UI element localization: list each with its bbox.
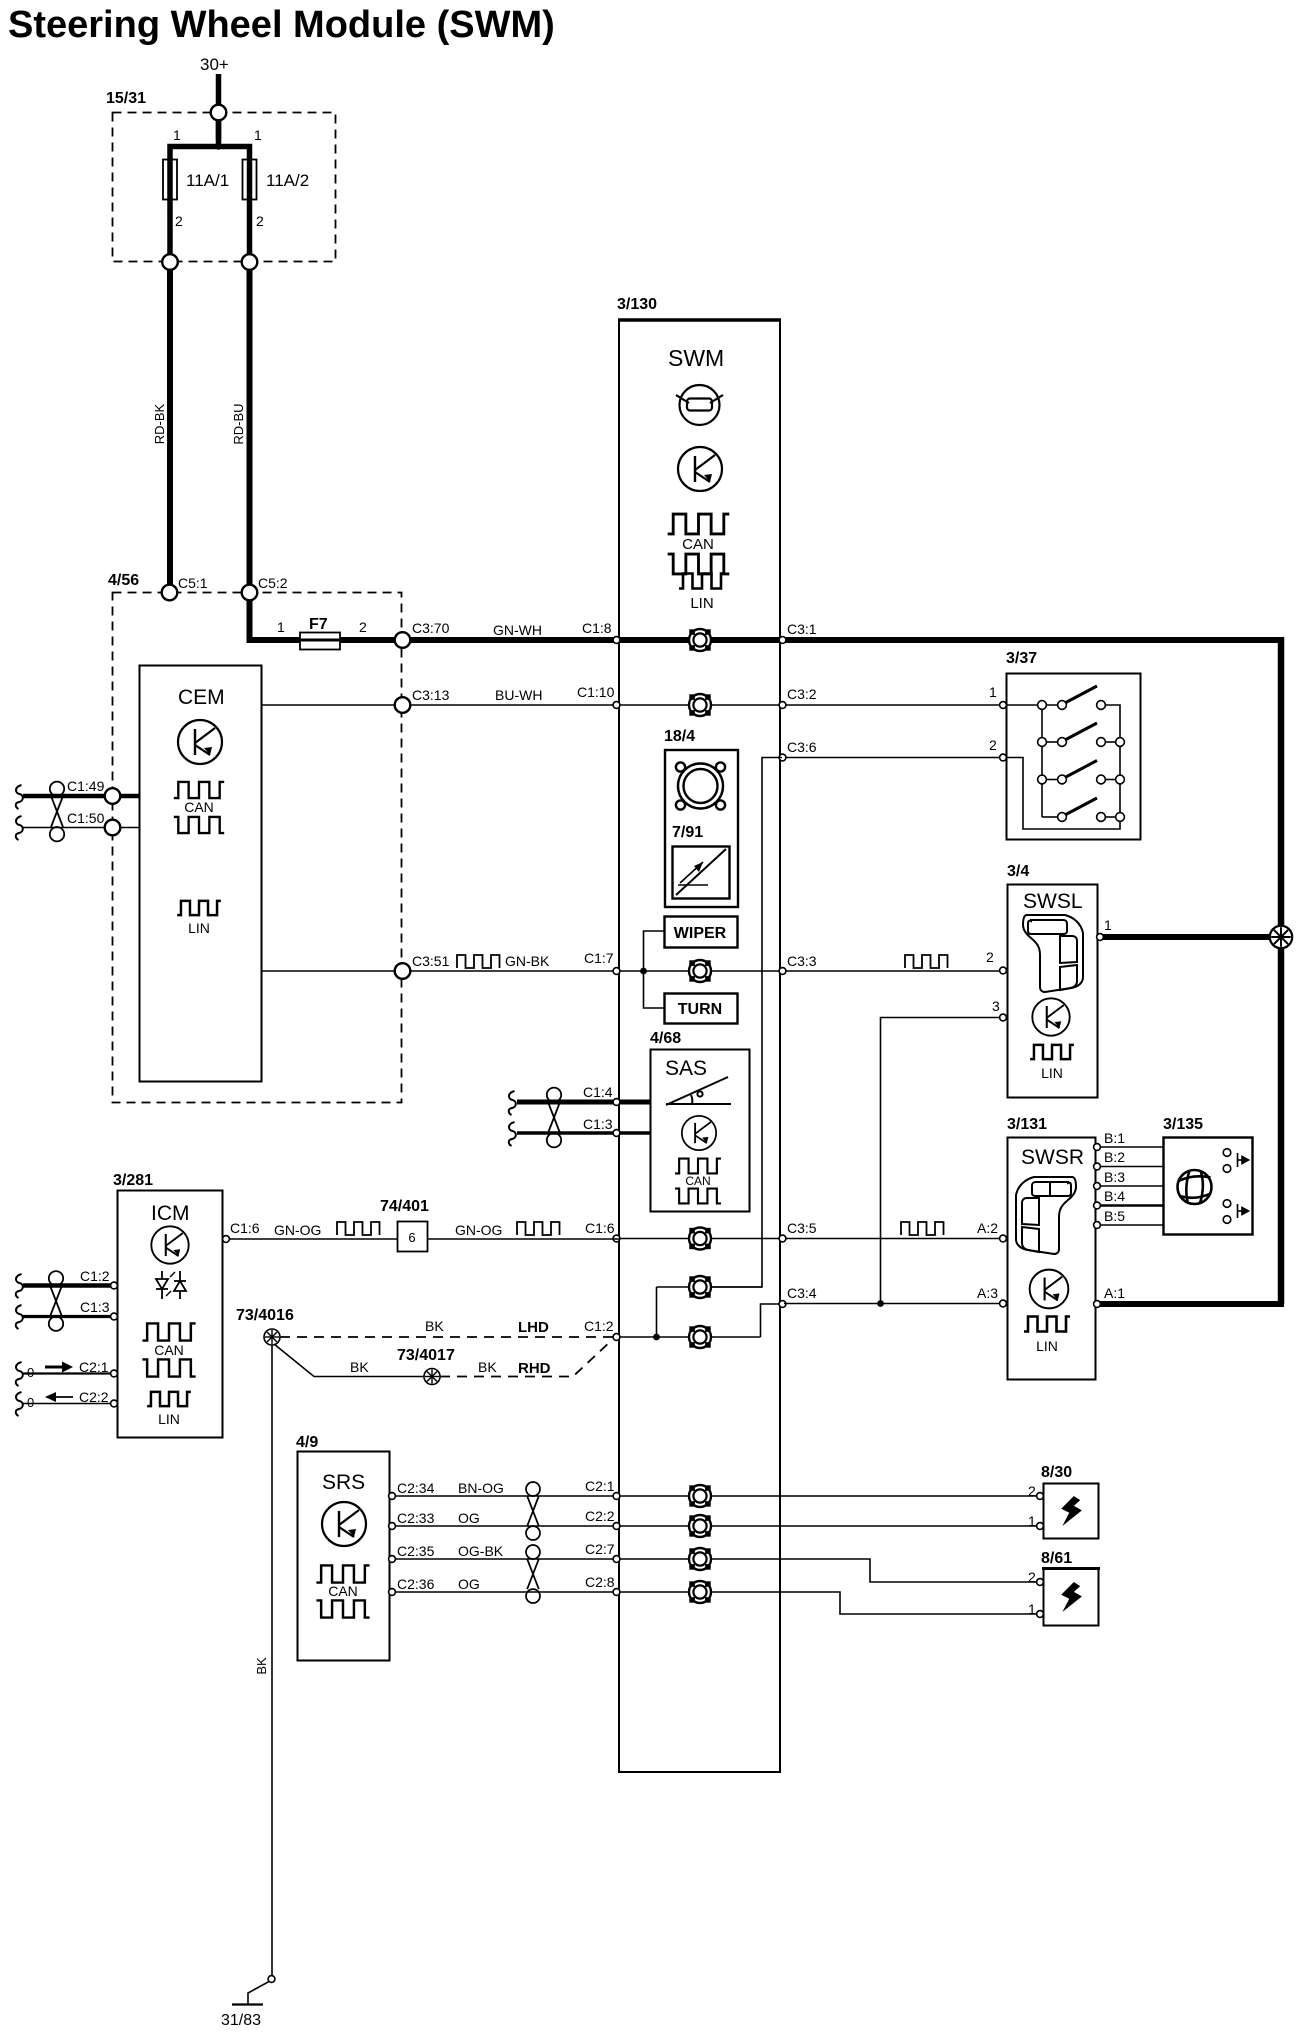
splice node on heavy net: [1270, 926, 1292, 948]
pin C3:3: [779, 968, 786, 975]
svg-text:73/4017: 73/4017: [397, 1347, 455, 1364]
svg-text:C5:1: C5:1: [178, 575, 208, 591]
svg-text:C3:4: C3:4: [787, 1285, 817, 1301]
pin A:3 of SWSR: [1000, 1300, 1007, 1307]
SWSR clock icon: [1030, 1270, 1069, 1309]
svg-text:C1:2: C1:2: [584, 1318, 614, 1334]
svg-text:1: 1: [254, 127, 262, 143]
wire 30+ feed vertical: [216, 74, 222, 140]
svg-text:C1:3: C1:3: [80, 1299, 110, 1315]
CEM CAN symbol: [174, 782, 224, 798]
svg-text:C1:6: C1:6: [585, 1220, 615, 1236]
svg-text:C5:2: C5:2: [258, 575, 288, 591]
junction on C1:2 row: [653, 1334, 660, 1341]
svg-text:BK: BK: [254, 1657, 269, 1675]
svg-text:CAN: CAN: [682, 536, 714, 553]
junction on C1:7 row: [640, 968, 647, 975]
wire 30+ into fuse bar: [216, 120, 222, 149]
twisted pair symbol SAS wires: [547, 1088, 561, 1148]
twisted pair symbol ICM CAN wires: [49, 1271, 63, 1331]
wire ICM C1:6 GN-OG row to SWM: [226, 1238, 619, 1240]
svg-text:ICM: ICM: [151, 1202, 190, 1225]
svg-text:LIN: LIN: [1041, 1065, 1063, 1081]
ICM suppressor diodes icon: [156, 1271, 186, 1299]
wire ICM C2:2 with in-arrow: [16, 1392, 23, 1416]
svg-text:C2:7: C2:7: [585, 1541, 615, 1557]
svg-text:1: 1: [1028, 1601, 1036, 1617]
svg-text:C1:49: C1:49: [67, 778, 105, 794]
svg-text:6: 6: [408, 1230, 415, 1245]
pin C1:8: [613, 637, 620, 644]
wire ICM C2:1 with out-arrow: [16, 1362, 23, 1386]
wire C1:3 into SAS: [509, 1122, 516, 1146]
SWM LIN symbol: [679, 574, 725, 589]
connector symbol on BU-WH wire: [689, 694, 711, 716]
svg-text:GN-WH: GN-WH: [493, 622, 542, 638]
wire branch down to C1:2 row: [656, 1287, 658, 1337]
svg-text:C2:8: C2:8: [585, 1574, 615, 1590]
svg-text:B:4: B:4: [1104, 1188, 1125, 1204]
heavy net vertical right side: [1278, 637, 1285, 1304]
pin A:2 of SWSR: [1000, 1235, 1007, 1242]
ICM clock icon: [151, 1226, 188, 1263]
dimmer icon: [676, 849, 726, 895]
wire C1:2 row inside SWM: [619, 1336, 761, 1338]
svg-text:A:3: A:3: [977, 1285, 998, 1301]
connector node on 15/31 top edge: [211, 105, 227, 121]
switch arms: [1063, 686, 1097, 704]
svg-text:2: 2: [256, 213, 264, 229]
svg-text:LIN: LIN: [158, 1411, 180, 1427]
svg-text:SWSR: SWSR: [1021, 1146, 1084, 1169]
CEM LIN symbol: [177, 901, 221, 915]
svg-text:C2:36: C2:36: [397, 1576, 435, 1592]
wire CEM C3:13 BU-WH to SWM C1:10: [261, 704, 618, 706]
svg-text:BU-WH: BU-WH: [495, 687, 542, 703]
ground connector node: [268, 1976, 275, 1983]
pins B:1..B:5 of SWSR with wires to 3/135: [1098, 1146, 1164, 1148]
svg-text:CAN: CAN: [685, 1174, 710, 1188]
SWSL clock icon: [1032, 998, 1069, 1035]
pin C3:2: [779, 702, 786, 709]
knot icon: [1178, 1170, 1212, 1204]
wire C1:6 row inside SWM to A:2: [619, 1238, 1000, 1240]
SWSL LIN symbol: [1030, 1045, 1074, 1059]
svg-text:4/56: 4/56: [108, 572, 139, 589]
svg-text:11A/2: 11A/2: [266, 171, 309, 190]
svg-text:RHD: RHD: [518, 1360, 551, 1377]
svg-text:2: 2: [989, 737, 997, 753]
SRS CAN symbol: [316, 1565, 369, 1582]
svg-text:3/131: 3/131: [1007, 1116, 1047, 1133]
svg-text:15/31: 15/31: [106, 90, 146, 107]
fuse 11A/1: [163, 160, 177, 200]
wire GN-WH F7 to SWM C1:8: [340, 637, 618, 643]
svg-text:LIN: LIN: [690, 595, 713, 612]
horn icon: [676, 762, 725, 809]
svg-text:LIN: LIN: [188, 920, 210, 936]
wire BK RHD (dashed diagonal): [440, 1340, 612, 1377]
svg-text:4/9: 4/9: [296, 1434, 318, 1451]
svg-text:SWM: SWM: [668, 345, 724, 371]
svg-text:CAN: CAN: [154, 1342, 184, 1358]
SWSL stalk icon: [1023, 915, 1083, 992]
svg-text:C3:70: C3:70: [412, 620, 450, 636]
wire C1:4 (thick) into SAS: [509, 1091, 516, 1115]
svg-text:1: 1: [173, 127, 181, 143]
wire WIPER/TURN branch: [644, 931, 665, 1008]
svg-text:RD-BU: RD-BU: [231, 403, 246, 444]
svg-text:C1:10: C1:10: [577, 684, 615, 700]
pin C1:3: [613, 1130, 620, 1137]
svg-text:2: 2: [986, 949, 994, 965]
pin C1:10: [613, 702, 620, 709]
SAS CAN symbol: [675, 1159, 721, 1174]
svg-text:A:2: A:2: [977, 1220, 998, 1236]
wire to ground point: [248, 1982, 269, 2005]
connector symbol on C1:6 row: [689, 1228, 711, 1250]
junction A:3/SWSL3: [877, 1300, 884, 1307]
wire CEM C3:51 GN-BK to SWM C1:7: [261, 970, 618, 972]
svg-text:C2:2: C2:2: [79, 1389, 109, 1405]
svg-text:8/61: 8/61: [1041, 1550, 1072, 1567]
wire BU-WH inside SWM to 3/37 pin 1: [619, 704, 1000, 706]
3/37 internal ladder: [1006, 705, 1120, 829]
svg-text:30+: 30+: [200, 55, 229, 74]
wires inside SWM to squibs: [619, 1495, 1037, 1497]
svg-text:C1:2: C1:2: [80, 1268, 110, 1284]
svg-text:BN-OG: BN-OG: [458, 1480, 504, 1496]
svg-text:18/4: 18/4: [664, 728, 695, 745]
svg-text:74/401: 74/401: [380, 1198, 429, 1215]
svg-text:1: 1: [1104, 917, 1112, 933]
svg-text:C2:34: C2:34: [397, 1480, 435, 1496]
wave on C3:3 row: [905, 955, 948, 968]
svg-text:BK: BK: [425, 1318, 444, 1334]
svg-text:8/30: 8/30: [1041, 1464, 1072, 1481]
svg-text:SRS: SRS: [322, 1471, 365, 1494]
wire ICM C1:2 (thick): [16, 1274, 23, 1298]
WIPER block: [665, 917, 738, 948]
keypad connector arrows: [1223, 1149, 1248, 1224]
twisted pair symbol rows 3-4: [526, 1545, 540, 1603]
pin C1:7: [613, 968, 620, 975]
internal row to C3:6 branch connector: [657, 1286, 763, 1288]
ICM CAN symbol: [142, 1323, 195, 1340]
svg-text:LIN: LIN: [1036, 1338, 1058, 1354]
twisted pair symbol rows 1-2: [526, 1482, 540, 1540]
SRS clock icon: [322, 1502, 366, 1546]
svg-text:SWSL: SWSL: [1023, 890, 1083, 913]
svg-text:2: 2: [1028, 1569, 1036, 1585]
svg-text:3: 3: [992, 998, 1000, 1014]
svg-text:2: 2: [175, 213, 183, 229]
wire BK to 73/4017 (solid): [274, 1344, 424, 1377]
svg-text:3/281: 3/281: [113, 1172, 153, 1189]
connector symbol on C1:7 row: [689, 960, 711, 982]
connector C1:50 on 4/56 edge: [105, 820, 121, 836]
connector C5:2: [242, 585, 258, 601]
svg-text:C2:1: C2:1: [585, 1478, 615, 1494]
wire GN-WH inside SWM / to right corner: [619, 637, 1284, 643]
svg-text:CAN: CAN: [184, 799, 214, 815]
svg-text:1: 1: [277, 619, 285, 635]
pin C3:1: [779, 637, 786, 644]
svg-text:3/37: 3/37: [1006, 650, 1037, 667]
pins C2:1/C2:2/C2:7/C2:8 on SWM edge: [613, 1493, 620, 1500]
wire C3:6 internal branch down: [712, 758, 782, 1288]
pin C3:5: [779, 1235, 786, 1242]
wire ICM C1:3: [16, 1305, 23, 1329]
svg-text:GN-OG: GN-OG: [455, 1222, 502, 1238]
svg-text:C2:2: C2:2: [585, 1508, 615, 1524]
svg-text:B:2: B:2: [1104, 1149, 1125, 1165]
svg-text:2: 2: [1028, 1483, 1036, 1499]
svg-text:LHD: LHD: [518, 1319, 549, 1336]
wire C2:33 OG row: [391, 1525, 619, 1527]
pin C1:2: [613, 1334, 620, 1341]
wire SWSL pin3 branch: [881, 1018, 1001, 1304]
svg-text:C1:3: C1:3: [583, 1116, 613, 1132]
svg-text:C3:5: C3:5: [787, 1220, 817, 1236]
svg-text:RD-BK: RD-BK: [152, 403, 167, 444]
svg-text:C1:4: C1:4: [583, 1084, 613, 1100]
wire C3:6 to 3/37 pin 2: [784, 757, 1000, 759]
pin C1:6: [613, 1235, 620, 1242]
wire RD-BK: [167, 269, 173, 586]
SAS angle icon: [666, 1077, 731, 1105]
fuse 11A/2: [243, 160, 257, 200]
svg-text:C3:6: C3:6: [787, 739, 817, 755]
svg-text:C1:50: C1:50: [67, 810, 105, 826]
svg-text:11A/1: 11A/1: [186, 171, 229, 190]
svg-text:OG-BK: OG-BK: [458, 1543, 504, 1559]
svg-text:C3:2: C3:2: [787, 686, 817, 702]
wire C2:36 OG row: [391, 1591, 619, 1593]
pin C3:4: [779, 1301, 786, 1308]
svg-text:WIPER: WIPER: [674, 925, 727, 942]
svg-text:73/4016: 73/4016: [236, 1307, 294, 1324]
wire BK LHD (dashed) to SWM C1:2: [280, 1336, 614, 1338]
wire C3:4 to A:3: [784, 1303, 1000, 1305]
pin C1:4: [613, 1099, 620, 1106]
svg-text:TURN: TURN: [678, 1001, 722, 1018]
svg-text:2: 2: [359, 619, 367, 635]
wire C5:2 to fuse F7: [250, 600, 301, 640]
svg-text:C1:7: C1:7: [584, 950, 614, 966]
wire BK ground drop: [271, 1345, 273, 1976]
wire C1:7 row inside SWM: [619, 970, 1000, 972]
svg-text:B:5: B:5: [1104, 1208, 1125, 1224]
ICM LIN symbol: [147, 1392, 191, 1406]
SWM clock icon: [678, 447, 722, 491]
svg-text:SAS: SAS: [665, 1057, 707, 1080]
svg-text:CEM: CEM: [178, 686, 225, 709]
connector C1:49 on 4/56 edge: [105, 788, 121, 804]
svg-text:C1:8: C1:8: [582, 620, 612, 636]
wire RD-BU: [247, 269, 253, 586]
svg-text:OG: OG: [458, 1576, 480, 1592]
pin C3:6: [779, 754, 786, 761]
connector symbol on branch row: [689, 1276, 711, 1298]
svg-text:1: 1: [1028, 1513, 1036, 1529]
svg-text:B:3: B:3: [1104, 1169, 1125, 1185]
connector nodes on 15/31 bottom edge: [162, 254, 178, 270]
SWM CAN symbol: [668, 514, 730, 534]
twisted pair symbol CEM CAN wires: [50, 782, 64, 842]
TURN block: [665, 994, 738, 1024]
svg-text:1: 1: [989, 684, 997, 700]
connector symbol on C1:2 row: [689, 1326, 711, 1348]
SWM steering wheel icon: [676, 385, 723, 425]
connector symbol on GN-WH wire: [689, 629, 711, 651]
CEM module box: [140, 666, 262, 1082]
wire fuse feed bar: [170, 147, 250, 263]
svg-text:3/135: 3/135: [1163, 1116, 1203, 1133]
svg-text:C3:3: C3:3: [787, 953, 817, 969]
svg-text:7/91: 7/91: [672, 824, 703, 841]
svg-text:C2:1: C2:1: [79, 1359, 109, 1375]
SWSR LIN symbol: [1024, 1317, 1070, 1332]
svg-text:Steering Wheel Module (SWM): Steering Wheel Module (SWM): [8, 4, 555, 46]
connector C3:70: [395, 632, 411, 648]
svg-text:OG: OG: [458, 1510, 480, 1526]
wave on C3:5 row: [901, 1222, 944, 1235]
svg-text:BK: BK: [350, 1359, 369, 1375]
SWSR stalk icon: [1016, 1177, 1076, 1254]
svg-text:3/4: 3/4: [1007, 863, 1029, 880]
junction 30+/bar: [215, 143, 221, 149]
svg-text:GN-OG: GN-OG: [274, 1222, 321, 1238]
svg-text:GN-BK: GN-BK: [505, 953, 550, 969]
svg-text:F7: F7: [309, 616, 328, 633]
wire C2:35 OG-BK row: [391, 1558, 619, 1560]
svg-text:C3:51: C3:51: [412, 953, 450, 969]
connector C5:1: [162, 585, 178, 601]
svg-text:4/68: 4/68: [650, 1030, 681, 1047]
svg-text:CAN: CAN: [328, 1583, 358, 1599]
svg-text:B:1: B:1: [1104, 1130, 1125, 1146]
SAS clock icon: [682, 1116, 716, 1150]
svg-text:C3:1: C3:1: [787, 621, 817, 637]
svg-text:C3:13: C3:13: [412, 687, 450, 703]
svg-text:C1:6: C1:6: [230, 1220, 260, 1236]
ground 31/83: [232, 2003, 263, 2005]
ladder node circles: [1038, 701, 1047, 710]
wire C1:50: [16, 816, 23, 840]
svg-text:C2:35: C2:35: [397, 1543, 435, 1559]
svg-text:31/83: 31/83: [221, 2012, 261, 2029]
svg-text:C2:33: C2:33: [397, 1510, 435, 1526]
svg-text:3/130: 3/130: [617, 296, 657, 313]
svg-text:A:1: A:1: [1104, 1285, 1125, 1301]
CEM clock icon: [178, 720, 222, 764]
wire C1:49 (thick): [16, 785, 23, 809]
svg-text:0: 0: [27, 1395, 34, 1410]
wire C2:34 BN-OG row: [391, 1495, 619, 1497]
wire up to C3:4: [761, 1304, 783, 1337]
svg-text:BK: BK: [478, 1359, 497, 1375]
